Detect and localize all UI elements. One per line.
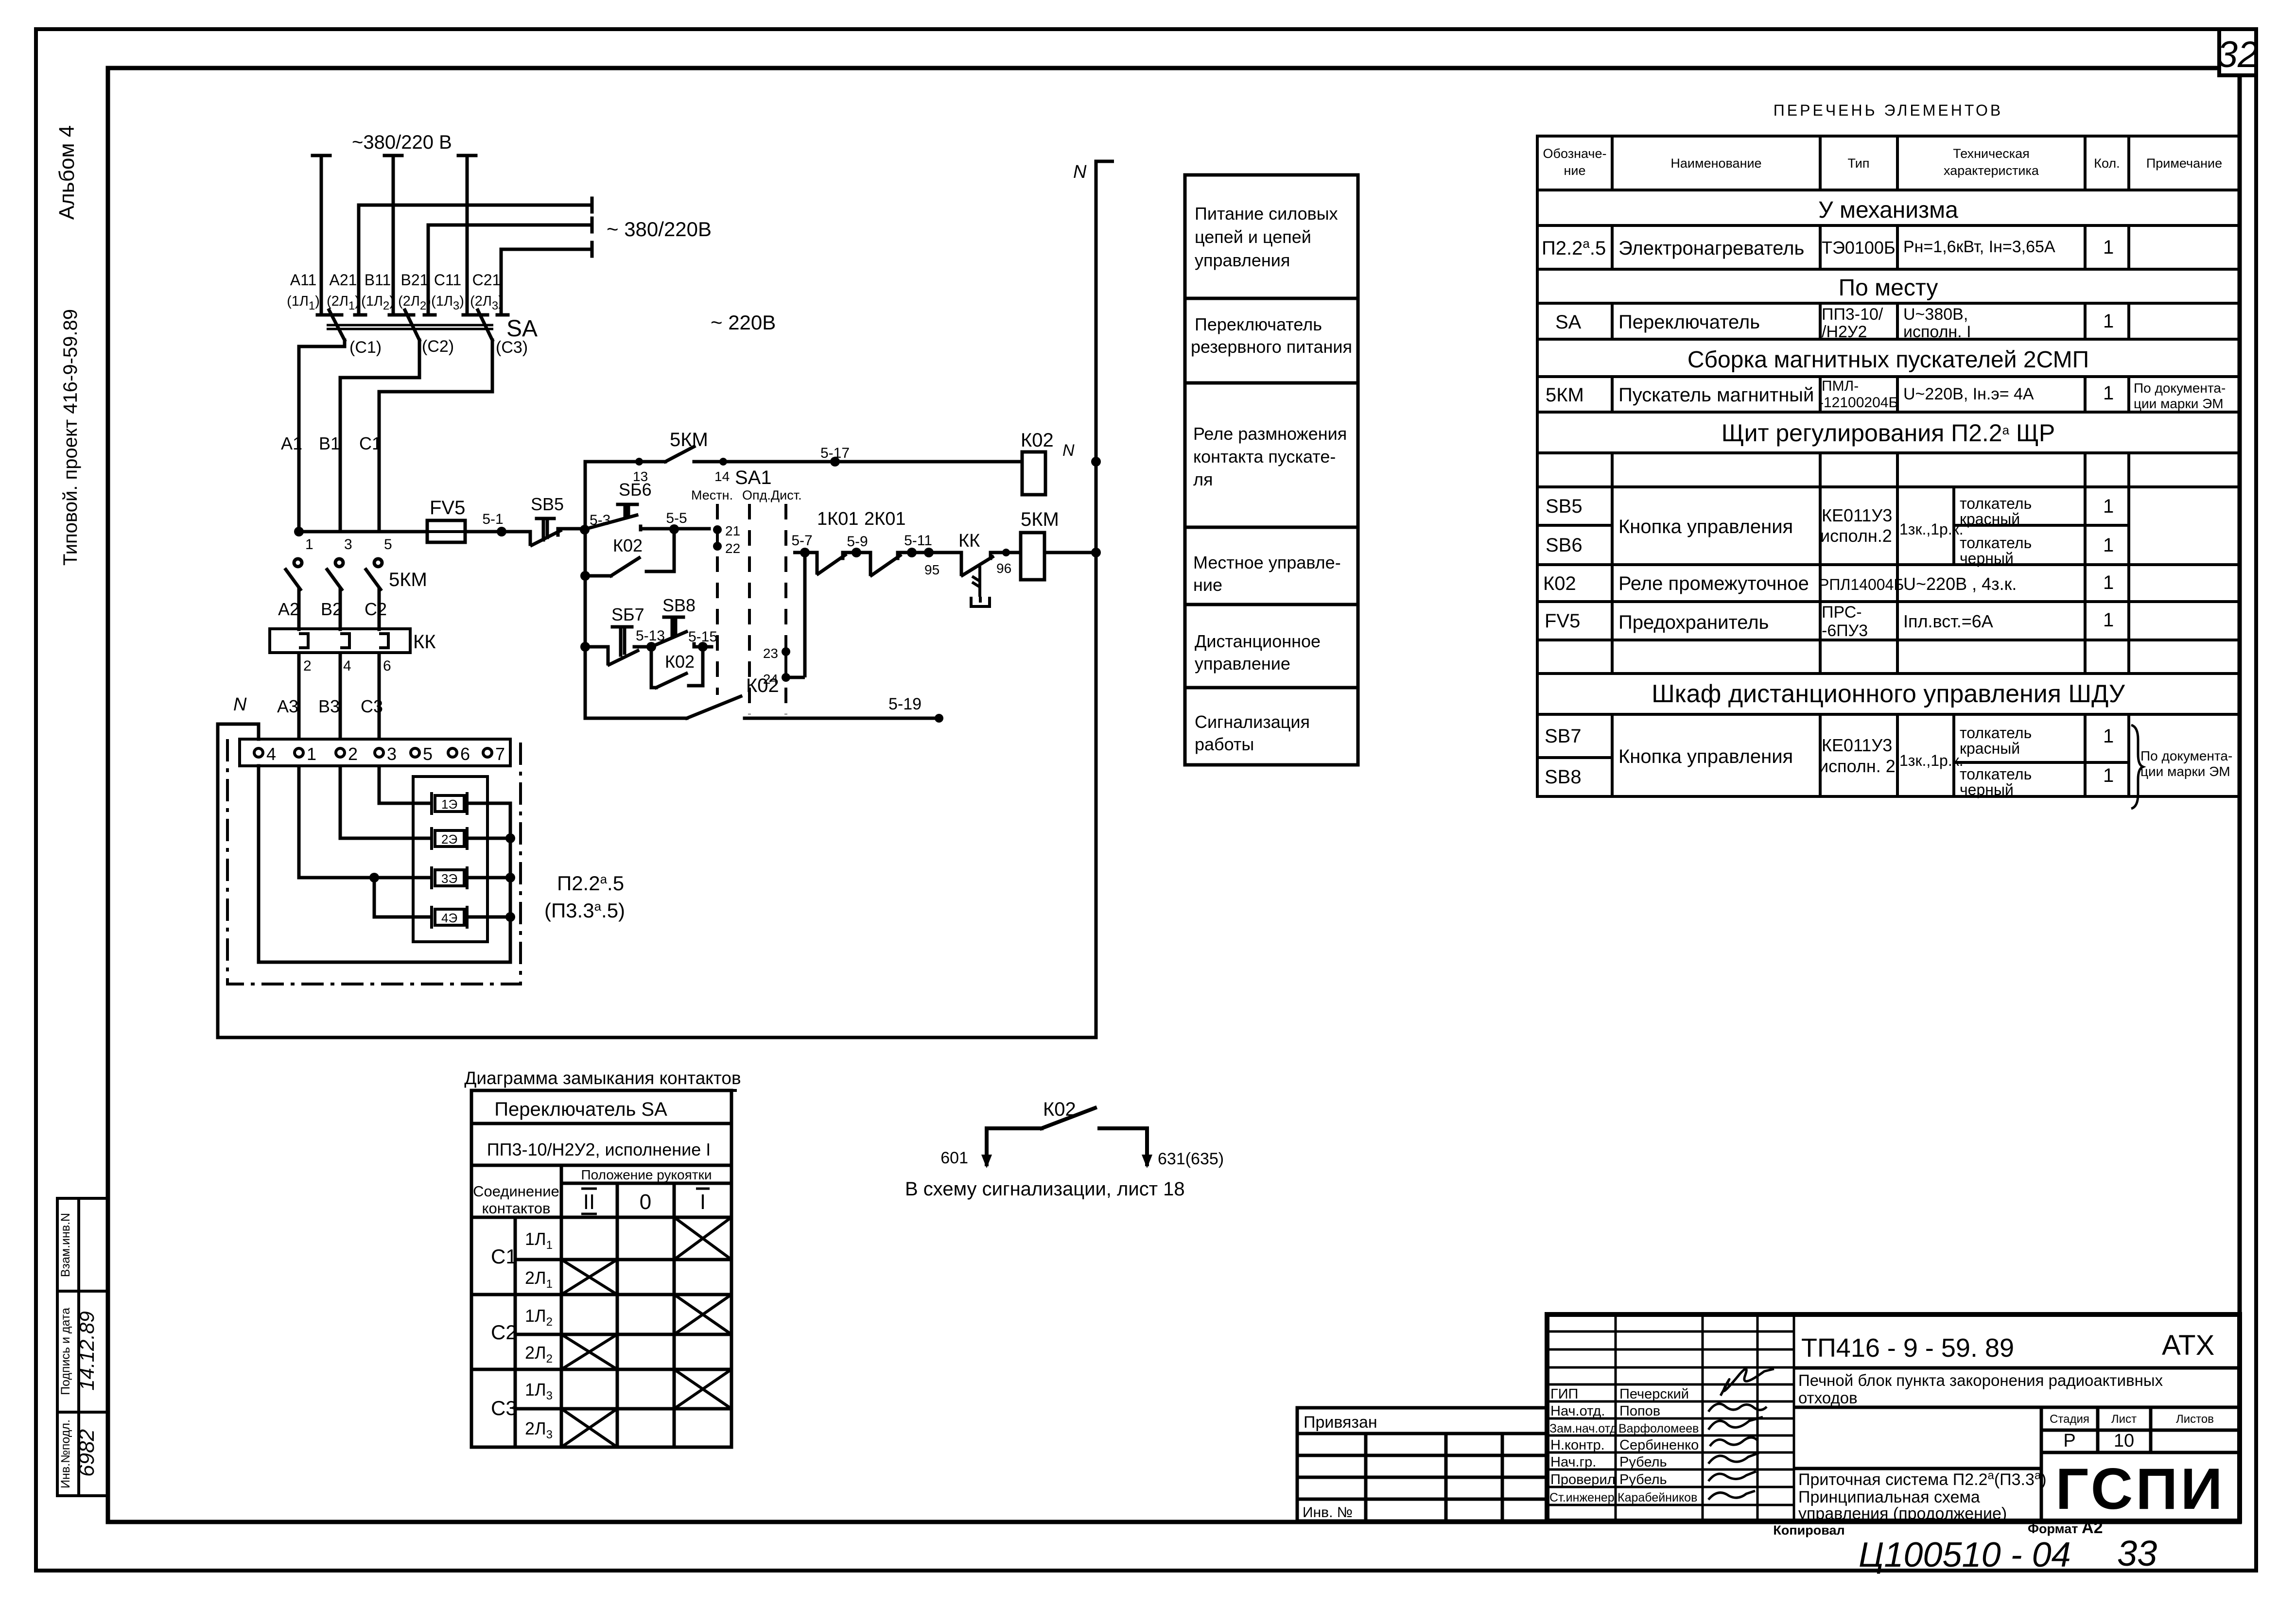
cross 1L1 position I (674, 1217, 731, 1260)
svg-text:Инв.№подл.: Инв.№подл. (59, 1419, 72, 1488)
svg-text:N: N (1062, 441, 1075, 460)
svg-text:Переключатель SA: Переключатель SA (494, 1099, 667, 1120)
node 5-9 (847, 534, 868, 557)
svg-text:Дистанционное: Дистанционное (1195, 631, 1321, 651)
cross 1L3 position I (674, 1369, 731, 1409)
svg-text:I: I (700, 1190, 706, 1214)
heater unit dash-dot boundary (227, 739, 521, 984)
svg-text:черный: черный (1960, 781, 2014, 798)
svg-text:N: N (233, 694, 247, 715)
svg-text:Сигнализация: Сигнализация (1195, 712, 1310, 732)
svg-text:По документа-: По документа- (2140, 748, 2232, 763)
relay contact K02 remote bypass (651, 647, 703, 688)
title block dividers right (1794, 1368, 2240, 1521)
node 5-13 (636, 628, 665, 652)
svg-text:II: II (583, 1190, 595, 1214)
switch SA packet switch bar (327, 325, 493, 329)
svg-text:Тип: Тип (1847, 156, 1869, 171)
svg-text:ТЭ0100Б: ТЭ0100Б (1822, 238, 1896, 258)
svg-text:К02: К02 (1021, 430, 1054, 451)
junction seal-in on rail (580, 571, 590, 581)
svg-text:Листов: Листов (2176, 1413, 2214, 1426)
svg-text:Местное управле-: Местное управле- (1193, 553, 1341, 572)
selector SA1 dashed column 3 (784, 504, 787, 714)
contactor 5KM main contact phase A (286, 559, 302, 629)
relay coil K02 (1021, 430, 1075, 495)
contactor coil 5KM (1021, 509, 1101, 580)
function label power supply (1195, 204, 1338, 270)
svg-text:резервного питания: резервного питания (1191, 337, 1352, 357)
svg-text:33: 33 (2117, 1533, 2157, 1573)
row P2.2a.5 electric heater (1542, 236, 2114, 259)
node 5-19 (888, 695, 943, 723)
svg-text:А21: А21 (330, 271, 357, 289)
svg-text:Обозначе-: Обозначе- (1543, 146, 1607, 161)
wire control tap from phase A (299, 530, 519, 534)
svg-text:U~220В , 4з.к.: U~220В , 4з.к. (1903, 574, 2017, 594)
contact 2K01 (856, 553, 912, 575)
svg-text:А11: А11 (290, 271, 317, 289)
svg-text:5: 5 (423, 744, 433, 764)
arrow 631(635) (1142, 1150, 1224, 1168)
wire phase A KK to terminal (297, 653, 301, 739)
svg-text:1: 1 (2103, 496, 2114, 517)
svg-text:толкатель: толкатель (1960, 534, 2032, 552)
junction heater bus dots (505, 833, 515, 922)
svg-text:С3: С3 (491, 1397, 517, 1419)
svg-text:Предохранитель: Предохранитель (1618, 612, 1769, 633)
title drawing name (1798, 1469, 2047, 1523)
svg-text:5-1: 5-1 (482, 511, 503, 527)
svg-text:КЕ011У3: КЕ011У3 (1822, 505, 1892, 525)
selector SA1 dashed column 2 (748, 504, 751, 714)
svg-text:Примечание: Примечание (2146, 156, 2222, 171)
svg-text:3Э: 3Э (441, 871, 457, 886)
cross 1L2 position I (674, 1295, 731, 1334)
svg-text:N: N (1073, 162, 1087, 182)
svg-text:631(635): 631(635) (1158, 1150, 1224, 1168)
svg-text:1зк.,1р.к.: 1зк.,1р.к. (1899, 752, 1964, 769)
thermal contact KK (912, 553, 1021, 575)
svg-text:5: 5 (384, 536, 392, 553)
svg-text:SB8: SB8 (662, 595, 696, 615)
wire reserve bus 2 (428, 218, 592, 232)
svg-text:РПЛ14004Б: РПЛ14004Б (1819, 576, 1904, 593)
svg-text:1: 1 (305, 536, 313, 553)
svg-text:1зк.,1р.к.: 1зк.,1р.к. (1899, 520, 1964, 538)
wire terminal 1 to heater 3 (299, 766, 432, 878)
svg-text:Рубель: Рубель (1619, 1454, 1667, 1470)
wire SA output C2 jog (340, 340, 419, 532)
svg-text:2: 2 (303, 658, 312, 674)
svg-text:(С2): (С2) (422, 337, 454, 356)
wire phase B KK to terminal (339, 653, 342, 739)
svg-text:А3: А3 (277, 696, 298, 716)
svg-text:С2: С2 (365, 599, 387, 619)
svg-text:Варфоломеев: Варфоломеев (1618, 1422, 1699, 1435)
svg-text:95: 95 (924, 562, 939, 577)
svg-text:Ст.инженер: Ст.инженер (1549, 1491, 1615, 1504)
wire reserve bus 3 (501, 242, 592, 256)
svg-text:В11: В11 (365, 271, 391, 289)
svg-text:(С1): (С1) (349, 338, 382, 357)
heater element 4E (432, 906, 467, 929)
svg-text:Сборка магнитных пускателей 2С: Сборка магнитных пускателей 2СМП (1687, 347, 2089, 373)
svg-text:5КМ: 5КМ (1021, 509, 1059, 530)
svg-text:исполн.2: исполн.2 (1820, 526, 1892, 546)
node label A21 (2L1) (327, 271, 360, 312)
svg-text:4Э: 4Э (441, 911, 457, 925)
svg-text:Нач.гр.: Нач.гр. (1550, 1454, 1596, 1470)
svg-text:Подпись и дата: Подпись и дата (59, 1308, 72, 1395)
wire reserve bus 1 (359, 198, 592, 212)
svg-text:SB5: SB5 (531, 494, 564, 514)
svg-text:КК: КК (413, 631, 436, 653)
terminal block (240, 739, 510, 766)
svg-text:22: 22 (725, 541, 740, 556)
svg-text:толкатель: толкатель (1960, 724, 2032, 742)
contactor aux contact 5KM 13-14 (585, 447, 1022, 462)
svg-text:Альбом 4: Альбом 4 (55, 125, 79, 220)
svg-text:(С3): (С3) (496, 338, 528, 357)
selector SA1 contact 21-22 (713, 523, 740, 556)
svg-text:К02: К02 (1543, 573, 1576, 594)
svg-text:С11: С11 (434, 271, 461, 289)
title stage values (2063, 1431, 2134, 1451)
svg-text:1: 1 (2103, 311, 2114, 332)
svg-text:ГИП: ГИП (1550, 1386, 1578, 1402)
stamp roles and names (1549, 1386, 1699, 1504)
svg-text:характеристика: характеристика (1944, 163, 2039, 178)
svg-text:Реле размножения: Реле размножения (1193, 424, 1347, 444)
svg-text:6: 6 (383, 658, 391, 674)
contactor 5KM main contact phase B (327, 559, 343, 629)
privyazan block (1297, 1408, 1547, 1521)
svg-text:В2: В2 (321, 599, 342, 619)
node 5-15 (688, 629, 717, 652)
selector SA1 dashed column 1 (716, 504, 719, 695)
row SA switch (1555, 305, 2114, 341)
brace in primechanie (2131, 725, 2143, 809)
svg-text:ПМЛ-: ПМЛ- (1822, 378, 1859, 394)
element table header (1543, 146, 2223, 178)
svg-text:ПП3-10/: ПП3-10/ (1822, 305, 1883, 324)
svg-text:4: 4 (266, 744, 276, 764)
svg-text:Опд.Дист.: Опд.Дист. (742, 488, 802, 502)
row SB5 control button (1546, 495, 2114, 546)
svg-text:управления: управления (1195, 250, 1290, 270)
svg-text:красный: красный (1960, 510, 2020, 528)
svg-text:С3: С3 (361, 696, 383, 716)
wire SA output C1 jog (299, 340, 345, 532)
svg-text:В схему сигнализации, лист 18: В схему сигнализации, лист 18 (905, 1178, 1185, 1200)
svg-text:5-5: 5-5 (666, 510, 687, 526)
svg-text:6982: 6982 (75, 1429, 99, 1477)
pushbutton SB8 NO contact (651, 617, 712, 647)
relay contact K02 seal-in (585, 529, 674, 576)
svg-text:ние: ние (1193, 575, 1222, 595)
svg-text:Лист: Лист (2111, 1413, 2137, 1426)
cross 2L2 position II (561, 1334, 617, 1369)
svg-text:6: 6 (460, 744, 470, 764)
svg-text:ние: ние (1564, 163, 1585, 178)
svg-text:Приточная система П2.2а(П3.3а): Приточная система П2.2а(П3.3а) (1798, 1469, 2047, 1489)
svg-text:По документа-: По документа- (2134, 380, 2226, 396)
svg-text:7: 7 (495, 744, 505, 764)
node label B11 (1L2) (361, 271, 394, 312)
row SB8 control button (1545, 765, 2114, 798)
function label signalling (1195, 712, 1310, 754)
svg-text:10: 10 (2114, 1431, 2134, 1451)
relay contact K02 signalling (987, 1108, 1147, 1164)
contact diagram header soedinenie kontaktov (473, 1183, 559, 1217)
svg-text:~380/220 В: ~380/220 В (352, 132, 452, 153)
svg-text:SB6: SB6 (1546, 535, 1583, 556)
junction 96 (1002, 549, 1010, 556)
svg-text:~ 220В: ~ 220В (711, 311, 776, 334)
wire SA output C3 jog (379, 340, 492, 532)
svg-text:14.12.89: 14.12.89 (75, 1311, 98, 1391)
svg-text:2К01: 2К01 (864, 509, 906, 529)
svg-text:Пускатель магнитный: Пускатель магнитный (1618, 384, 1814, 406)
svg-text:А1: А1 (281, 433, 302, 453)
fuse FV5 (427, 520, 465, 542)
svg-text:1: 1 (2103, 382, 2114, 404)
position II (581, 1189, 597, 1214)
svg-text:С1: С1 (491, 1245, 517, 1268)
svg-text:работы: работы (1195, 734, 1254, 754)
row FV5 fuse (1545, 603, 2114, 640)
wire terminal 3 to heater 1 (379, 766, 432, 803)
svg-text:1: 1 (2103, 535, 2114, 556)
svg-text:2: 2 (348, 744, 358, 764)
svg-text:Нач.отд.: Нач.отд. (1550, 1403, 1605, 1419)
svg-text:Положение рукоятки: Положение рукоятки (581, 1167, 712, 1182)
wire heater right bus (259, 766, 510, 962)
svg-text:5-7: 5-7 (791, 533, 812, 549)
svg-text:5КМ: 5КМ (389, 569, 427, 590)
heater group enclosure (413, 777, 487, 942)
contact diagram table grid (471, 1090, 731, 1447)
svg-text:ГСПИ: ГСПИ (2055, 1456, 2226, 1521)
svg-text:Н.контр.: Н.контр. (1550, 1437, 1605, 1453)
svg-text:контактов: контактов (482, 1200, 551, 1217)
heater designation label (544, 872, 625, 922)
node label C21 (2L3) (470, 271, 503, 312)
svg-text:-12100204Б: -12100204Б (1819, 395, 1898, 411)
node 5-5 (666, 510, 687, 534)
node 5-1 (482, 511, 506, 536)
svg-text:Переключатель: Переключатель (1618, 311, 1760, 333)
wire reserve B21 riser (427, 225, 430, 315)
svg-text:Зам.нач.отд: Зам.нач.отд (1549, 1422, 1617, 1435)
svg-text:5-19: 5-19 (888, 695, 922, 713)
svg-text:толкатель: толкатель (1960, 495, 2032, 512)
heater element 2E (432, 827, 467, 850)
svg-text:К02: К02 (613, 536, 643, 555)
svg-text:П2.2а.5: П2.2а.5 (557, 872, 624, 895)
node label A11 (1L1) (287, 271, 320, 312)
SA terminal serifs (317, 313, 508, 317)
svg-text:Кол.: Кол. (2094, 156, 2120, 171)
switch SA contact phase B (405, 310, 419, 340)
pushbutton SB6 NO contact (587, 504, 709, 530)
cross 2L1 position II (561, 1260, 617, 1295)
svg-text:1: 1 (2103, 237, 2114, 258)
wire left control rail (584, 462, 587, 718)
svg-text:Карабейников: Карабейников (1618, 1491, 1697, 1504)
svg-text:цепей и цепей: цепей и цепей (1195, 227, 1311, 247)
element list table grid (1537, 136, 2240, 796)
contactor 5KM main contact phase C (366, 559, 382, 629)
KK terminals 2 4 6 (303, 658, 391, 674)
wire N return (218, 161, 1096, 1037)
svg-text:5КМ: 5КМ (670, 429, 708, 450)
function label relay multiplier (1193, 424, 1347, 489)
svg-text:А2: А2 (278, 599, 299, 619)
svg-text:Стадия: Стадия (2050, 1413, 2089, 1426)
svg-text:КК: КК (958, 531, 980, 551)
svg-text:ТП416 - 9 - 59. 89: ТП416 - 9 - 59. 89 (1801, 1333, 2014, 1363)
svg-text:1: 1 (307, 744, 316, 764)
svg-text:Кнопка управления: Кнопка управления (1618, 516, 1793, 537)
svg-text:Соединение: Соединение (473, 1183, 559, 1200)
svg-text:ции марки ЭМ: ции марки ЭМ (2134, 396, 2224, 411)
svg-text:Электронагреватель: Электронагреватель (1618, 238, 1804, 259)
title block outline (1547, 1314, 2240, 1521)
svg-text:1: 1 (2103, 726, 2114, 747)
svg-text:исполн. 2: исполн. 2 (1819, 756, 1896, 776)
svg-text:1: 1 (2103, 765, 2114, 786)
node 5-11 (904, 533, 934, 557)
cross 2L3 position II (561, 1409, 617, 1447)
svg-text:SБ6: SБ6 (619, 480, 652, 500)
svg-text:U~380В,: U~380В, (1903, 305, 1968, 324)
svg-text:601: 601 (940, 1149, 968, 1167)
svg-text:Кнопка управления: Кнопка управления (1618, 746, 1793, 767)
svg-text:управление: управление (1195, 654, 1290, 674)
svg-text:Инв. №: Инв. № (1303, 1504, 1353, 1521)
svg-text:Формат А2: Формат А2 (2028, 1519, 2103, 1537)
svg-text:ПП3-10/Н2У2, исполнение I: ПП3-10/Н2У2, исполнение I (487, 1140, 711, 1159)
relay contact K02 to signal 5-19 (585, 696, 939, 718)
svg-text:SA: SA (1555, 311, 1582, 333)
svg-text:Реле промежуточное: Реле промежуточное (1618, 573, 1809, 594)
svg-text:черный: черный (1960, 550, 2014, 567)
pushbutton SB5 NC contact (519, 518, 582, 545)
svg-text:1: 1 (2103, 609, 2114, 631)
wire supply C11 with terminal bar (458, 156, 476, 315)
svg-text:SВ7: SВ7 (1545, 726, 1582, 747)
function column box (1185, 175, 1358, 765)
net N label top (1073, 161, 1114, 182)
svg-text:В3: В3 (318, 696, 340, 716)
svg-text:14: 14 (714, 469, 730, 484)
node 5-17 (820, 445, 850, 467)
svg-text:/Н2У2: /Н2У2 (1822, 323, 1867, 341)
svg-text:-6ПУ3: -6ПУ3 (1822, 622, 1868, 640)
svg-text:контакта пускате-: контакта пускате- (1193, 447, 1336, 467)
svg-text:4: 4 (343, 658, 351, 674)
node label C11 (1L3) (431, 271, 464, 312)
svg-text:Печной блок пункта закороне: Печной блок пункта закоронения радиоакти… (1798, 1371, 2163, 1389)
svg-text:С1: С1 (359, 433, 382, 453)
svg-text:96: 96 (996, 561, 1011, 576)
svg-text:АТХ: АТХ (2162, 1330, 2214, 1361)
svg-text:Техническая: Техническая (1953, 146, 2030, 161)
junction K02 to N rail (1091, 457, 1101, 467)
svg-text:SБ7: SБ7 (611, 605, 644, 624)
svg-text:управления (продолжение): управления (продолжение) (1798, 1504, 2007, 1523)
node 5-7 (791, 533, 812, 677)
svg-text:С2: С2 (491, 1321, 517, 1344)
wire supply A11 with terminal bar (313, 156, 330, 315)
svg-text:~ 380/220В: ~ 380/220В (607, 218, 712, 241)
wire reserve C21 riser (500, 249, 503, 315)
svg-text:Диаграмма замыкания контактов: Диаграмма замыкания контактов (464, 1068, 741, 1088)
svg-text:К02: К02 (665, 652, 695, 672)
svg-text:(П3.3а.5): (П3.3а.5) (544, 899, 625, 922)
svg-text:Ц100510 - 04: Ц100510 - 04 (1859, 1536, 2071, 1574)
function label local control (1193, 553, 1341, 595)
function label reserve switch (1191, 314, 1352, 357)
svg-text:Iпл.вст.=6А: Iпл.вст.=6А (1903, 611, 1993, 631)
title object name (1798, 1371, 2163, 1407)
svg-text:красный: красный (1960, 740, 2020, 757)
svg-text:5-9: 5-9 (847, 534, 868, 550)
row 5KM magnetic starter (1546, 378, 2226, 411)
title block left stamp grid (1547, 1314, 1794, 1521)
svg-text:ПЕРЕЧЕНЬ ЭЛЕМЕНТОВ: ПЕРЕЧЕНЬ ЭЛЕМЕНТОВ (1774, 102, 2003, 119)
pushbutton SB7 NC contact (585, 627, 651, 665)
svg-text:U~220В, Iн.э= 4А: U~220В, Iн.э= 4А (1903, 385, 2034, 403)
svg-text:Проверил: Проверил (1550, 1472, 1616, 1487)
switch SA contact phase A (329, 310, 345, 340)
svg-text:ля: ля (1193, 469, 1213, 489)
wire branch to heater 4 (374, 878, 432, 917)
svg-text:К02: К02 (746, 675, 779, 696)
svg-text:Шкаф дистанционного управления: Шкаф дистанционного управления ШДУ (1652, 680, 2125, 708)
heater element 1E (432, 792, 467, 815)
svg-text:ции марки ЭМ: ции марки ЭМ (2140, 764, 2230, 779)
svg-text:Наименование: Наименование (1670, 156, 1761, 171)
svg-text:21: 21 (725, 523, 740, 538)
svg-text:Питание силовых: Питание силовых (1195, 204, 1338, 224)
svg-text:отходов: отходов (1798, 1389, 1858, 1407)
svg-text:SА1: SА1 (735, 467, 772, 488)
junction node on phase A (294, 527, 304, 536)
svg-text:Местн.: Местн. (691, 488, 733, 502)
svg-text:Попов: Попов (1619, 1403, 1660, 1419)
svg-text:У механизма: У механизма (1818, 197, 1958, 223)
svg-text:Принципиальная схема: Принципиальная схема (1798, 1488, 1980, 1506)
svg-text:2Э: 2Э (441, 832, 457, 847)
svg-text:исполн. I: исполн. I (1903, 323, 1971, 341)
svg-text:1: 1 (2103, 572, 2114, 593)
svg-text:5-11: 5-11 (904, 533, 932, 549)
svg-text:5КМ: 5КМ (1546, 384, 1584, 406)
svg-text:Сербиненко: Сербиненко (1619, 1437, 1699, 1453)
svg-text:КЕ011У3: КЕ011У3 (1822, 735, 1892, 755)
svg-text:К02: К02 (1043, 1099, 1076, 1120)
junction heater 3 branch (369, 873, 379, 882)
thermal KK release symbol (971, 566, 990, 606)
svg-text:По месту: По месту (1839, 275, 1938, 301)
svg-text:0: 0 (640, 1190, 651, 1214)
contactor 5KM main contact terminals 1 3 5 (305, 536, 392, 553)
svg-text:Копировал: Копировал (1773, 1523, 1844, 1538)
svg-text:Взам.инв.N: Взам.инв.N (59, 1213, 72, 1277)
